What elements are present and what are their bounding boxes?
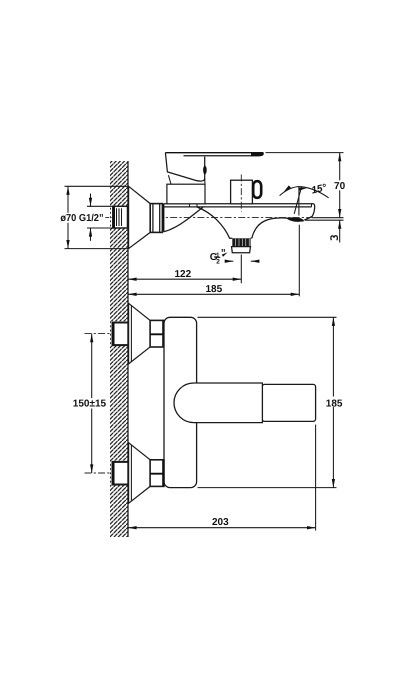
label G1/2 small [210,248,228,265]
dim 203 extension [315,425,317,531]
svg-text:122: 122 [175,269,192,280]
dim 122 line [128,278,241,280]
svg-text:ø70 G1/2”: ø70 G1/2” [60,213,103,224]
svg-text:70: 70 [334,181,346,192]
spout tip nose [312,204,314,216]
handle capsule (plan) [174,383,262,423]
aerator slot (black wedge) [286,217,304,221]
spout end (plan) [262,384,315,421]
escutcheon cone (top view) [129,186,151,248]
wall nipple holes (clear) [111,206,128,229]
svg-text:2: 2 [216,259,220,266]
mixer body (plan) [164,317,197,487]
body left edge (top view) [163,204,165,232]
dim o70 G1/2 extensions [65,185,128,187]
handle pivot highlight [203,166,207,175]
dim 3 (lower arrow) [339,220,341,242]
dim G1/2 arrows [90,194,92,207]
dim 203 line [128,527,316,529]
lever tip [251,152,264,156]
lower escutcheon cone [129,443,151,504]
spout underside to tip [252,218,289,237]
body waist curves under deck [164,207,203,232]
dim 70 line [339,153,341,218]
connection nut (top view) [150,204,162,233]
shower outlet collar G1/2 [232,247,251,253]
lower nipple [113,461,129,485]
dim 150+-15 line [91,334,93,473]
shower outlet thread block [232,238,250,246]
dim o70 line [67,186,69,248]
lever bar [165,152,263,154]
label 3 [331,236,338,241]
centerline supply axis [75,217,310,219]
svg-text:185: 185 [206,284,223,295]
deck plate [164,203,314,205]
upper nipple [113,322,129,346]
diverter pull ring [253,181,261,198]
dim 122 extension [240,255,242,284]
svg-text:203: 203 [212,517,229,528]
handle base [165,153,204,181]
15 deg arc [280,187,329,198]
centerline upper connector [85,333,177,335]
shower outlet bell [197,207,232,238]
dim 185 plan line [332,317,334,487]
wall hatching [110,161,128,537]
svg-text:150±15: 150±15 [73,399,107,410]
dim 185 top view extension [298,225,300,297]
dim 70 extension lines [266,152,344,154]
dim 185 plan extensions [198,316,337,318]
dim 185 top view line [128,293,299,295]
eccentric nipple (in wall) [113,206,128,228]
cartridge neck [167,184,205,204]
15 deg reference vertical [298,186,300,215]
lower connection nut [150,460,164,487]
svg-text:185: 185 [326,398,343,409]
upper escutcheon cone [129,303,151,364]
outlet small dim arrows [225,260,233,262]
label o70 G1/2 [59,213,106,223]
upper connection nut [150,320,164,347]
wall face line [127,161,129,537]
15 deg tilted line [294,186,302,214]
diverter knob [231,180,253,204]
centerline lower connector [85,472,177,474]
diverter centerline [240,175,242,212]
